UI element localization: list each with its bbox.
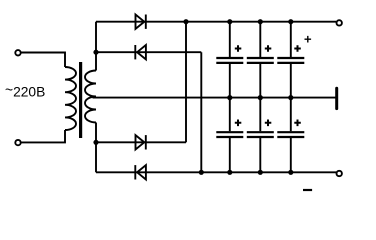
svg-text:~220В: ~220В xyxy=(5,82,45,99)
